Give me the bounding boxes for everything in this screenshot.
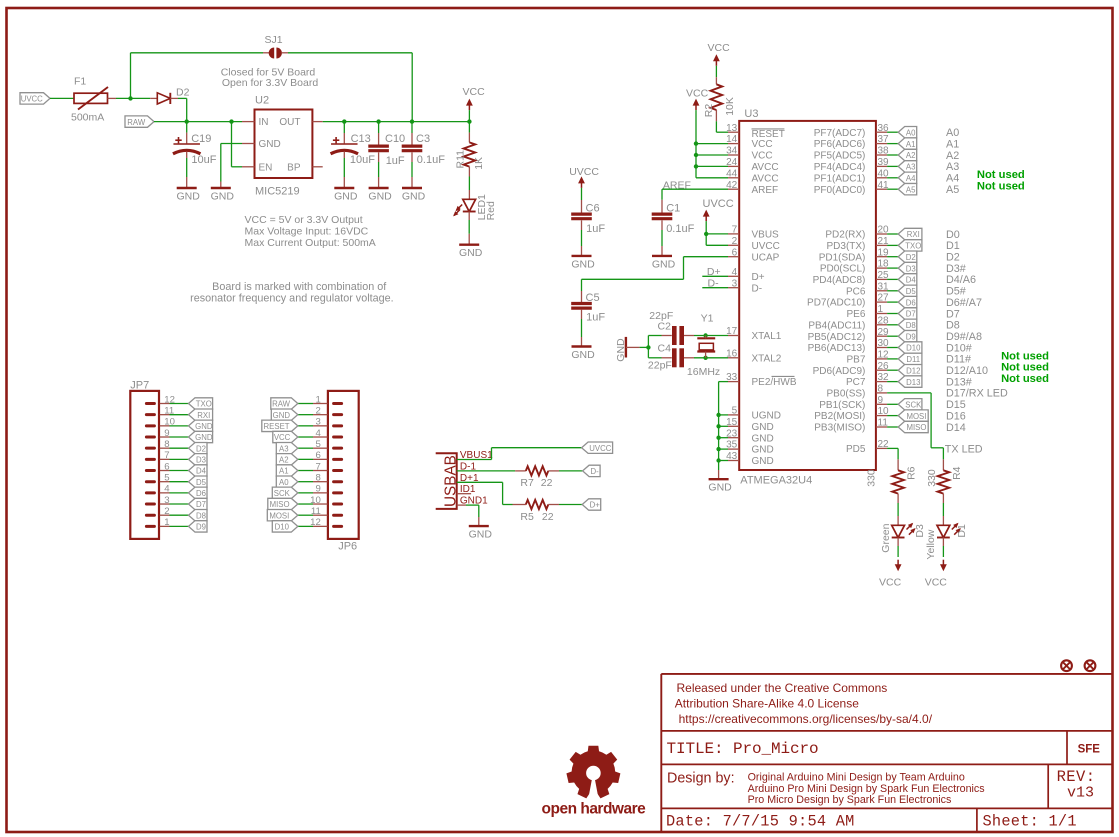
svg-text:PD7(ADC10): PD7(ADC10) xyxy=(807,298,865,309)
svg-text:GND: GND xyxy=(752,456,774,467)
svg-text:A2: A2 xyxy=(906,151,916,160)
svg-text:Not used: Not used xyxy=(1001,350,1049,362)
svg-text:Not used: Not used xyxy=(977,169,1025,181)
svg-text:SCK: SCK xyxy=(905,401,922,410)
svg-text:D0: D0 xyxy=(946,229,960,241)
svg-text:Not used: Not used xyxy=(1001,373,1049,385)
svg-text:1uF: 1uF xyxy=(586,311,605,323)
svg-text:VCC: VCC xyxy=(925,577,948,589)
svg-text:10K: 10K xyxy=(724,97,736,116)
svg-text:D6#/A7: D6#/A7 xyxy=(946,297,982,309)
svg-text:8: 8 xyxy=(878,384,884,395)
svg-text:AVCC: AVCC xyxy=(752,162,779,173)
svg-text:PB5(ADC12): PB5(ADC12) xyxy=(808,332,866,343)
svg-text:RAW: RAW xyxy=(272,400,291,409)
svg-text:PC7: PC7 xyxy=(846,377,866,388)
svg-text:D13#: D13# xyxy=(946,376,972,388)
svg-text:GND: GND xyxy=(459,247,483,259)
svg-text:Date: 7/7/15 9:54 AM: Date: 7/7/15 9:54 AM xyxy=(666,812,855,830)
svg-text:6: 6 xyxy=(315,450,320,461)
svg-text:Yellow: Yellow xyxy=(925,529,937,559)
svg-text:GND: GND xyxy=(615,338,627,362)
svg-text:JP6: JP6 xyxy=(338,541,357,553)
svg-text:D6: D6 xyxy=(196,489,206,498)
svg-text:GND: GND xyxy=(195,433,213,442)
svg-text:PB6(ADC13): PB6(ADC13) xyxy=(808,343,866,354)
svg-text:PD1(SDA): PD1(SDA) xyxy=(819,252,866,263)
svg-text:2: 2 xyxy=(315,405,320,416)
svg-text:0.1uF: 0.1uF xyxy=(417,154,445,166)
svg-text:C4: C4 xyxy=(658,343,672,355)
svg-text:D17/RX LED: D17/RX LED xyxy=(946,388,1008,400)
svg-text:5: 5 xyxy=(732,406,738,417)
svg-text:GND: GND xyxy=(708,482,732,494)
svg-text:R2: R2 xyxy=(703,104,715,118)
svg-text:UGND: UGND xyxy=(752,411,781,422)
svg-text:12: 12 xyxy=(310,517,321,528)
svg-text:VCC: VCC xyxy=(752,139,773,150)
svg-text:PD4(ADC8): PD4(ADC8) xyxy=(813,275,866,286)
svg-text:3: 3 xyxy=(164,495,169,506)
svg-text:XTAL2: XTAL2 xyxy=(752,353,782,364)
svg-text:1: 1 xyxy=(315,394,320,405)
svg-text:UVCC: UVCC xyxy=(21,95,43,104)
svg-text:GND: GND xyxy=(177,191,201,203)
svg-text:1uF: 1uF xyxy=(586,223,605,235)
svg-text:2: 2 xyxy=(732,236,738,247)
svg-text:PD5: PD5 xyxy=(846,444,866,455)
svg-text:R7: R7 xyxy=(520,477,534,489)
svg-text:VCC: VCC xyxy=(708,42,731,54)
svg-text:A5: A5 xyxy=(946,184,959,196)
svg-text:16MHz: 16MHz xyxy=(687,366,720,378)
svg-text:GND: GND xyxy=(752,433,774,444)
svg-text:PD6(ADC9): PD6(ADC9) xyxy=(813,366,866,377)
svg-text:MISO: MISO xyxy=(270,500,290,509)
svg-text:VCC: VCC xyxy=(879,577,902,589)
svg-text:IN: IN xyxy=(259,117,269,128)
svg-text:500mA: 500mA xyxy=(71,112,104,124)
svg-text:D12/A10: D12/A10 xyxy=(946,365,988,377)
svg-text:A2: A2 xyxy=(279,456,289,465)
svg-text:D4/A6: D4/A6 xyxy=(946,274,976,286)
svg-text:GND: GND xyxy=(469,529,493,541)
svg-text:D8: D8 xyxy=(906,321,916,330)
svg-text:TX LED: TX LED xyxy=(945,443,983,455)
svg-text:JP7: JP7 xyxy=(130,380,149,392)
svg-text:8: 8 xyxy=(315,472,320,483)
svg-text:8: 8 xyxy=(164,439,169,450)
svg-text:VCC: VCC xyxy=(686,88,709,100)
svg-text:GND: GND xyxy=(368,191,392,203)
svg-text:AVCC: AVCC xyxy=(752,173,779,184)
svg-text:7: 7 xyxy=(315,461,320,472)
svg-text:UVCC: UVCC xyxy=(703,198,734,210)
svg-text:10: 10 xyxy=(310,495,321,506)
svg-text:A1: A1 xyxy=(906,140,916,149)
svg-text:Sheet: 1/1: Sheet: 1/1 xyxy=(983,812,1077,830)
svg-text:4: 4 xyxy=(315,428,321,439)
svg-text:D9: D9 xyxy=(906,332,916,341)
svg-text:D10#: D10# xyxy=(946,342,972,354)
svg-text:7: 7 xyxy=(732,225,738,236)
svg-text:D2: D2 xyxy=(906,253,916,262)
svg-text:VBUS: VBUS xyxy=(752,230,780,241)
svg-text:PD3(TX): PD3(TX) xyxy=(826,241,865,252)
svg-text:A4: A4 xyxy=(946,173,959,185)
svg-text:VCC: VCC xyxy=(274,433,291,442)
svg-text:D+: D+ xyxy=(752,272,765,283)
svg-text:A3: A3 xyxy=(279,444,289,453)
svg-text:2: 2 xyxy=(164,506,169,517)
svg-text:330: 330 xyxy=(926,469,938,487)
svg-text:PE6: PE6 xyxy=(846,309,865,320)
svg-text:D1: D1 xyxy=(956,524,968,538)
svg-text:11: 11 xyxy=(878,418,889,429)
svg-text:D6: D6 xyxy=(906,298,916,307)
svg-text:TITLE: Pro_Micro: TITLE: Pro_Micro xyxy=(667,740,819,758)
svg-text:TXO: TXO xyxy=(196,400,212,409)
svg-text:MOSI: MOSI xyxy=(269,511,289,520)
svg-text:PB3(MISO): PB3(MISO) xyxy=(814,423,865,434)
svg-text:PD2(RX): PD2(RX) xyxy=(825,230,865,241)
svg-text:Board is marked with combinati: Board is marked with combination of xyxy=(212,281,387,293)
svg-text:open hardware: open hardware xyxy=(542,801,647,818)
svg-text:Design by:: Design by: xyxy=(667,770,735,786)
svg-text:PE2/HWB: PE2/HWB xyxy=(752,377,797,388)
svg-text:4: 4 xyxy=(164,484,170,495)
svg-text:Not used: Not used xyxy=(1001,362,1049,374)
svg-text:6: 6 xyxy=(732,247,738,258)
svg-text:UCAP: UCAP xyxy=(752,252,780,263)
svg-text:GND: GND xyxy=(752,422,774,433)
svg-text:C5: C5 xyxy=(586,292,600,304)
svg-text:F1: F1 xyxy=(74,76,86,88)
svg-text:D2: D2 xyxy=(196,444,206,453)
svg-text:D2: D2 xyxy=(176,87,190,99)
svg-text:PB7: PB7 xyxy=(846,355,865,366)
svg-text:3: 3 xyxy=(315,417,320,428)
svg-text:OUT: OUT xyxy=(279,117,300,128)
svg-text:SFE: SFE xyxy=(1078,743,1101,755)
svg-text:RXI: RXI xyxy=(197,411,210,420)
svg-text:GND: GND xyxy=(259,139,281,150)
svg-text:Max Voltage Input: 16VDC: Max Voltage Input: 16VDC xyxy=(245,226,369,238)
svg-text:C19: C19 xyxy=(191,133,211,145)
svg-text:Red: Red xyxy=(485,201,497,220)
svg-text:GND: GND xyxy=(273,411,291,420)
svg-text:C3: C3 xyxy=(416,133,430,145)
svg-text:VCC: VCC xyxy=(463,86,486,98)
svg-text:MISO: MISO xyxy=(906,423,926,432)
svg-text:VCC: VCC xyxy=(752,151,773,162)
svg-text:11: 11 xyxy=(164,405,174,416)
svg-text:1: 1 xyxy=(164,517,169,528)
svg-text:R5: R5 xyxy=(520,511,534,523)
svg-text:D16: D16 xyxy=(946,410,966,422)
svg-text:Arduino Pro Mini Design by Spa: Arduino Pro Mini Design by Spark Fun Ele… xyxy=(748,783,985,795)
svg-text:A3: A3 xyxy=(906,163,916,172)
svg-text:11: 11 xyxy=(311,506,321,517)
svg-text:GND: GND xyxy=(571,349,595,361)
svg-text:C1: C1 xyxy=(666,203,680,215)
svg-text:PD0(SCL): PD0(SCL) xyxy=(820,264,866,275)
svg-text:D4: D4 xyxy=(906,276,917,285)
svg-text:PF6(ADC6): PF6(ADC6) xyxy=(814,139,866,150)
svg-text:D10: D10 xyxy=(275,523,290,532)
svg-text:USBAB: USBAB xyxy=(442,455,459,507)
svg-text:D3: D3 xyxy=(196,456,206,465)
svg-text:D11: D11 xyxy=(906,355,920,364)
svg-text:GND: GND xyxy=(211,191,235,203)
svg-text:SCK: SCK xyxy=(274,489,291,498)
svg-text:GND: GND xyxy=(652,258,676,270)
svg-text:GND: GND xyxy=(195,422,213,431)
svg-text:resonator frequency and regula: resonator frequency and regulator voltag… xyxy=(190,292,393,304)
svg-text:D7: D7 xyxy=(906,310,916,319)
svg-text:PC6: PC6 xyxy=(846,286,866,297)
svg-text:6: 6 xyxy=(164,461,169,472)
svg-text:Original Arduino Mini Design b: Original Arduino Mini Design by Team Ard… xyxy=(748,772,965,784)
svg-text:A1: A1 xyxy=(279,467,289,476)
svg-text:D9: D9 xyxy=(196,523,206,532)
svg-text:https://creativecommons.org/li: https://creativecommons.org/licenses/by-… xyxy=(679,712,933,726)
svg-text:D5: D5 xyxy=(196,478,207,487)
svg-text:C13: C13 xyxy=(351,133,371,145)
svg-text:RXI: RXI xyxy=(907,230,920,239)
svg-text:UVCC: UVCC xyxy=(752,241,780,252)
svg-text:1K: 1K xyxy=(473,157,485,170)
svg-text:A0: A0 xyxy=(946,127,959,139)
svg-text:R6: R6 xyxy=(906,466,918,480)
svg-text:22: 22 xyxy=(542,511,554,523)
svg-text:VCC = 5V or 3.3V Output: VCC = 5V or 3.3V Output xyxy=(245,214,363,226)
svg-text:0.1uF: 0.1uF xyxy=(666,223,694,235)
svg-text:GND: GND xyxy=(752,445,774,456)
svg-text:PF1(ADC1): PF1(ADC1) xyxy=(814,173,866,184)
svg-text:GND: GND xyxy=(402,191,426,203)
svg-text:PF5(ADC5): PF5(ADC5) xyxy=(814,151,866,162)
svg-text:C2: C2 xyxy=(658,321,672,333)
svg-text:A2: A2 xyxy=(946,150,959,162)
svg-text:D-: D- xyxy=(752,283,763,294)
svg-text:Released under the Creative Co: Released under the Creative Commons xyxy=(677,681,888,695)
svg-text:10uF: 10uF xyxy=(191,154,216,166)
svg-text:D+: D+ xyxy=(590,501,601,510)
svg-text:Green: Green xyxy=(880,523,892,552)
svg-text:MIC5219: MIC5219 xyxy=(255,185,300,197)
svg-text:330: 330 xyxy=(866,469,878,487)
svg-text:PF0(ADC0): PF0(ADC0) xyxy=(814,185,866,196)
svg-text:D4: D4 xyxy=(196,467,207,476)
svg-text:9: 9 xyxy=(164,428,169,439)
svg-text:D5#: D5# xyxy=(946,286,966,298)
svg-text:1: 1 xyxy=(878,304,884,315)
svg-text:A3: A3 xyxy=(946,161,959,173)
svg-text:22: 22 xyxy=(541,477,553,489)
svg-text:A4: A4 xyxy=(906,174,916,183)
svg-text:D7: D7 xyxy=(946,308,960,320)
svg-text:D8: D8 xyxy=(196,511,206,520)
svg-text:A0: A0 xyxy=(279,478,289,487)
svg-text:Not used: Not used xyxy=(977,181,1025,193)
svg-text:SJ1: SJ1 xyxy=(264,34,282,46)
svg-text:UVCC: UVCC xyxy=(569,166,599,178)
svg-text:3: 3 xyxy=(732,278,738,289)
svg-text:D11#: D11# xyxy=(946,354,971,366)
svg-text:XTAL1: XTAL1 xyxy=(752,331,782,342)
svg-text:U2: U2 xyxy=(255,95,269,107)
svg-text:v13: v13 xyxy=(1067,785,1094,802)
svg-text:7: 7 xyxy=(164,450,169,461)
svg-text:PF4(ADC4): PF4(ADC4) xyxy=(814,162,866,173)
svg-text:PB1(SCK): PB1(SCK) xyxy=(819,400,865,411)
svg-text:D3: D3 xyxy=(906,264,916,273)
svg-text:U3: U3 xyxy=(744,108,758,120)
svg-text:5: 5 xyxy=(164,472,169,483)
svg-text:ATMEGA32U4: ATMEGA32U4 xyxy=(740,474,812,486)
svg-text:UVCC: UVCC xyxy=(589,444,611,453)
svg-text:10: 10 xyxy=(164,417,175,428)
svg-text:9: 9 xyxy=(315,484,320,495)
svg-text:TXO: TXO xyxy=(905,242,921,251)
svg-text:D10: D10 xyxy=(906,344,921,353)
svg-text:PF7(ADC7): PF7(ADC7) xyxy=(814,128,866,139)
svg-text:D15: D15 xyxy=(946,399,966,411)
svg-text:A1: A1 xyxy=(946,138,959,150)
svg-text:A0: A0 xyxy=(906,128,916,137)
svg-text:R11: R11 xyxy=(455,150,467,169)
svg-text:PB2(MOSI): PB2(MOSI) xyxy=(814,411,865,422)
svg-text:Max Current Output: 500mA: Max Current Output: 500mA xyxy=(245,237,376,249)
svg-text:1uF: 1uF xyxy=(386,155,405,167)
svg-text:D9#/A8: D9#/A8 xyxy=(946,331,982,343)
svg-text:PB4(ADC11): PB4(ADC11) xyxy=(808,320,865,331)
svg-text:PB0(SS): PB0(SS) xyxy=(826,389,865,400)
svg-text:R4: R4 xyxy=(951,466,963,480)
svg-text:9: 9 xyxy=(878,395,884,406)
svg-text:Attribution Share-Alike 4.0 Li: Attribution Share-Alike 4.0 License xyxy=(675,696,859,710)
svg-text:D8: D8 xyxy=(946,320,960,332)
svg-text:GND: GND xyxy=(571,258,595,270)
svg-text:Pro Micro Design by Spark Fun: Pro Micro Design by Spark Fun Electronic… xyxy=(748,794,952,806)
svg-text:D7: D7 xyxy=(196,500,206,509)
svg-text:C6: C6 xyxy=(586,203,600,215)
svg-text:12: 12 xyxy=(164,394,175,405)
svg-text:D-: D- xyxy=(590,467,599,476)
svg-text:Open for 3.3V Board: Open for 3.3V Board xyxy=(222,77,318,89)
svg-text:D5: D5 xyxy=(906,287,917,296)
svg-text:D14: D14 xyxy=(946,422,966,434)
svg-text:EN: EN xyxy=(259,162,273,173)
svg-text:D13: D13 xyxy=(906,378,920,387)
svg-text:D2: D2 xyxy=(946,252,960,264)
svg-text:22pF: 22pF xyxy=(648,360,672,372)
svg-text:D12: D12 xyxy=(906,366,920,375)
svg-text:5: 5 xyxy=(315,439,320,450)
svg-text:D1: D1 xyxy=(946,240,960,252)
svg-text:BP: BP xyxy=(287,162,301,173)
svg-text:C10: C10 xyxy=(385,133,405,145)
svg-text:GND: GND xyxy=(334,191,358,203)
svg-text:D3#: D3# xyxy=(946,263,966,275)
svg-text:Y1: Y1 xyxy=(701,312,714,324)
svg-text:A5: A5 xyxy=(906,185,916,194)
svg-text:4: 4 xyxy=(732,267,738,278)
svg-text:REV:: REV: xyxy=(1057,768,1096,786)
svg-text:RAW: RAW xyxy=(127,118,146,127)
svg-text:AREF: AREF xyxy=(752,185,779,196)
svg-text:10uF: 10uF xyxy=(350,154,375,166)
svg-text:MOSI: MOSI xyxy=(906,412,926,421)
svg-text:RESET: RESET xyxy=(264,422,290,431)
